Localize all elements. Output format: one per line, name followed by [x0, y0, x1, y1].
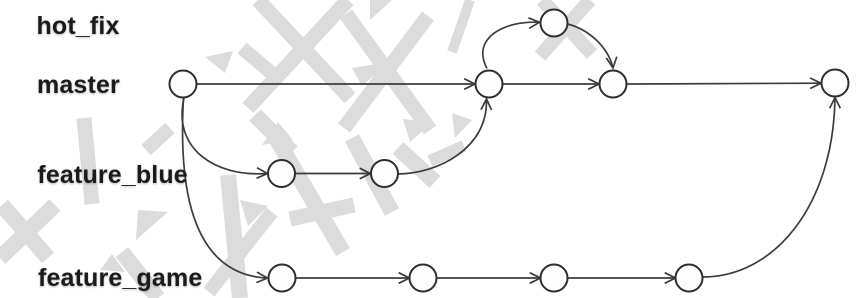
- label hot_fix: [37, 14, 120, 39]
- commit node G1: [269, 265, 296, 292]
- wire merge H1 to M3: [568, 24, 613, 66]
- wire feature_game G1-G2: [296, 277, 409, 279]
- wire branch M1 to G1: [182, 98, 266, 279]
- commit node H1 (hot_fix): [541, 10, 568, 37]
- wire feature_blue B1-B2: [295, 173, 369, 175]
- commit node G2: [410, 265, 437, 292]
- commit node M1 (master start): [170, 71, 197, 98]
- wire master M3-M4: [627, 82, 820, 85]
- commit node M4 (master head): [822, 70, 849, 97]
- label feature_game: [38, 266, 202, 291]
- label master: [37, 73, 120, 98]
- commit node B2: [371, 160, 398, 187]
- wire feature_game G3-G4: [568, 277, 675, 279]
- commit node B1: [268, 160, 295, 187]
- wire merge G4 to M4: [703, 99, 836, 277]
- wire merge B2 to M2: [398, 101, 487, 174]
- wire master M1-M2: [197, 83, 474, 85]
- wire branch M1 to B1: [182, 98, 266, 174]
- commit node M3: [600, 71, 627, 98]
- wire branch M2 to hotfix H1: [483, 22, 539, 68]
- commit node G4: [676, 265, 703, 292]
- wire master M2-M3: [503, 83, 598, 85]
- commit node G3: [541, 265, 568, 292]
- commit node M2: [476, 71, 503, 98]
- watermark background: [258, 0, 350, 98]
- label feature_blue: [37, 163, 187, 188]
- wire feature_game G2-G3: [437, 277, 540, 279]
